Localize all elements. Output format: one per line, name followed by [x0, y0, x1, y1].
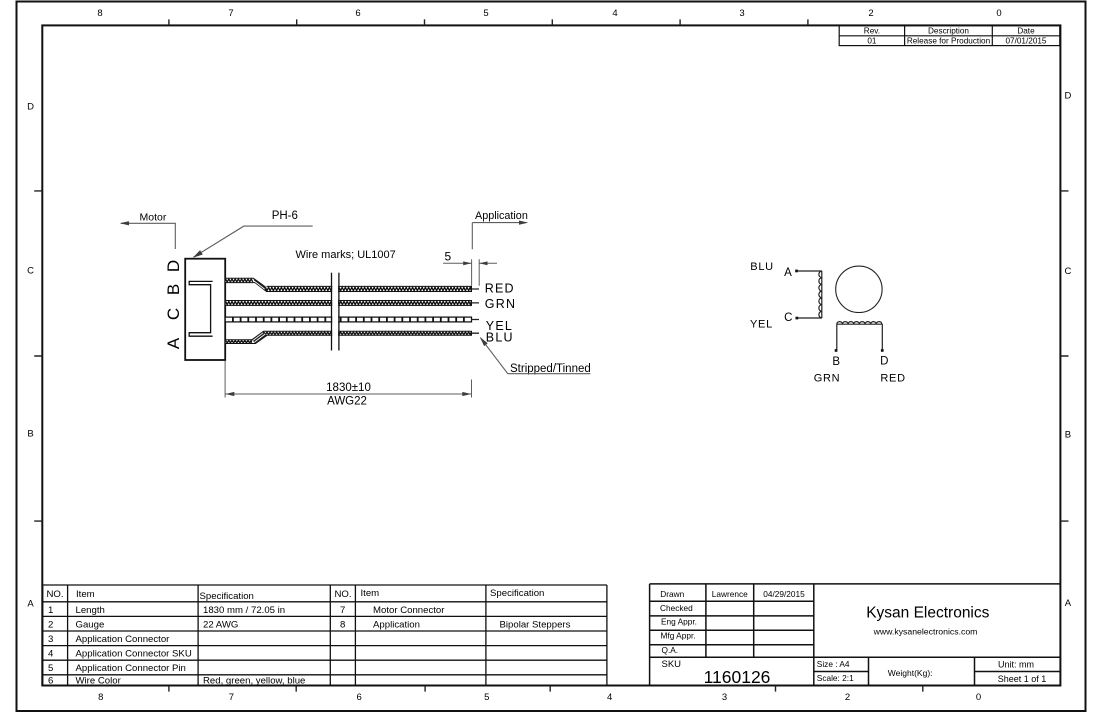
stripped wire ends	[472, 289, 480, 333]
svg-text:A: A	[784, 267, 792, 279]
svg-text:NO.: NO.	[335, 589, 352, 600]
svg-text:Q.A.: Q.A.	[662, 645, 679, 655]
svg-text:8: 8	[340, 619, 345, 630]
svg-text:22 AWG: 22 AWG	[203, 619, 238, 630]
svg-text:PH-6: PH-6	[272, 210, 298, 222]
svg-text:Application Connector Pin: Application Connector Pin	[76, 663, 186, 674]
wire YEL insulation	[225, 317, 471, 322]
svg-text:BLU: BLU	[750, 261, 774, 273]
svg-text:Specification: Specification	[490, 588, 544, 599]
svg-text:Motor: Motor	[140, 212, 167, 224]
svg-text:YEL: YEL	[750, 319, 773, 331]
label Motor with leader arrow	[120, 212, 176, 249]
svg-text:C: C	[164, 308, 183, 320]
connector housing PH-6	[185, 259, 225, 360]
svg-text:Gauge: Gauge	[76, 619, 105, 630]
svg-text:Wire marks; UL1007: Wire marks; UL1007	[296, 249, 396, 261]
wire GRN insulation	[225, 301, 471, 306]
svg-text:1: 1	[48, 605, 53, 616]
svg-text:7: 7	[229, 692, 234, 703]
dimension 1830±10 AWG22	[225, 361, 471, 408]
motor body circle	[836, 266, 882, 312]
svg-text:Checked: Checked	[660, 603, 693, 613]
svg-text:Size : A4: Size : A4	[817, 659, 850, 669]
wire C to coil	[797, 317, 822, 319]
svg-text:Motor Connector: Motor Connector	[373, 605, 445, 616]
svg-text:D: D	[164, 260, 183, 272]
title block	[650, 584, 1061, 686]
svg-text:Application: Application	[373, 619, 420, 630]
svg-text:Release for Production: Release for Production	[907, 37, 991, 46]
wire GRN hatch	[226, 301, 472, 304]
svg-text:D: D	[880, 356, 888, 368]
winding A-C (vertical coil)	[819, 271, 822, 318]
svg-text:Item: Item	[76, 589, 95, 600]
svg-text:B: B	[27, 428, 33, 439]
svg-text:Application Connector: Application Connector	[76, 634, 171, 645]
svg-text:8: 8	[97, 8, 102, 19]
svg-text:1830 mm / 72.05 in: 1830 mm / 72.05 in	[203, 605, 285, 616]
break line right	[338, 273, 340, 351]
svg-text:Length: Length	[76, 605, 105, 616]
parts list table	[43, 585, 607, 686]
svg-text:Kysan Electronics: Kysan Electronics	[866, 604, 989, 621]
svg-text:07/01/2015: 07/01/2015	[1006, 37, 1047, 46]
label Application with leader arrow	[472, 210, 528, 249]
label PH-6 with leader arrow to connector	[193, 210, 313, 258]
svg-text:A: A	[164, 337, 183, 349]
svg-text:D: D	[1064, 91, 1071, 102]
svg-text:Specification: Specification	[200, 591, 254, 602]
cable break gap	[332, 270, 338, 351]
svg-text:GRN: GRN	[814, 372, 841, 384]
svg-text:Red, green, yellow, blue: Red, green, yellow, blue	[203, 675, 305, 686]
dimension 5 (strip length)	[443, 249, 497, 286]
wire YEL hatch	[233, 317, 464, 322]
svg-text:www.kysanelectronics.com: www.kysanelectronics.com	[873, 626, 978, 636]
svg-text:AWG22: AWG22	[327, 395, 367, 407]
svg-text:7: 7	[340, 605, 345, 616]
svg-text:Rev.: Rev.	[864, 27, 880, 36]
svg-text:Weight(Kg):: Weight(Kg):	[888, 668, 933, 678]
svg-text:BLU: BLU	[486, 331, 514, 345]
svg-text:RED: RED	[485, 282, 515, 296]
wire A to coil	[797, 270, 822, 272]
svg-text:NO.: NO.	[47, 589, 64, 600]
svg-text:Lawrence: Lawrence	[712, 589, 748, 599]
svg-text:B: B	[832, 356, 840, 368]
svg-text:01: 01	[867, 37, 877, 46]
svg-text:3: 3	[48, 634, 53, 645]
svg-text:6: 6	[48, 675, 53, 686]
svg-text:1830±10: 1830±10	[326, 382, 371, 394]
svg-text:Date: Date	[1017, 27, 1035, 36]
revision table	[839, 26, 1060, 46]
svg-text:4: 4	[607, 692, 612, 703]
connector latch	[189, 281, 212, 336]
node B	[835, 349, 838, 352]
svg-text:04/29/2015: 04/29/2015	[763, 589, 805, 599]
svg-text:Description: Description	[928, 27, 969, 36]
svg-text:Sheet 1 of 1: Sheet 1 of 1	[998, 674, 1047, 684]
svg-text:Drawn: Drawn	[660, 589, 684, 599]
svg-text:2: 2	[845, 692, 850, 703]
wire RED insulation	[225, 278, 471, 291]
wire BLU insulation	[225, 331, 471, 343]
node C	[796, 317, 799, 320]
svg-text:Application: Application	[475, 210, 528, 222]
wire BLU hatch	[226, 332, 472, 343]
svg-text:Bipolar Steppers: Bipolar Steppers	[500, 619, 571, 630]
svg-text:B: B	[1065, 430, 1071, 441]
svg-text:Wire Color: Wire Color	[76, 675, 122, 686]
svg-text:4: 4	[48, 649, 54, 660]
break line left	[331, 273, 333, 351]
svg-text:Scale: 2:1: Scale: 2:1	[817, 673, 854, 683]
svg-text:2: 2	[48, 619, 53, 630]
svg-text:RED: RED	[880, 372, 905, 384]
svg-text:7: 7	[228, 8, 233, 19]
svg-text:5: 5	[444, 249, 451, 263]
svg-text:D: D	[27, 101, 34, 112]
svg-text:GRN: GRN	[485, 297, 516, 311]
svg-text:A: A	[1065, 598, 1072, 609]
svg-text:Unit: mm: Unit: mm	[998, 660, 1034, 670]
svg-text:8: 8	[98, 692, 103, 703]
svg-text:Eng Appr.: Eng Appr.	[661, 616, 697, 626]
svg-text:C: C	[1064, 266, 1071, 277]
wire RED hatch	[226, 279, 472, 291]
svg-text:Application Connector SKU: Application Connector SKU	[76, 649, 192, 660]
svg-text:C: C	[27, 265, 34, 276]
svg-text:6: 6	[355, 8, 360, 19]
node A	[795, 270, 798, 273]
label Stripped/Tinned with leader arrow	[480, 337, 591, 375]
svg-text:2: 2	[868, 8, 873, 19]
svg-text:5: 5	[48, 663, 53, 674]
node D	[881, 349, 884, 352]
svg-text:Mfg Appr.: Mfg Appr.	[661, 630, 696, 640]
svg-text:SKU: SKU	[662, 659, 682, 670]
svg-text:5: 5	[484, 692, 489, 703]
svg-text:3: 3	[722, 692, 727, 703]
svg-text:C: C	[784, 312, 792, 324]
svg-text:Item: Item	[361, 588, 380, 599]
svg-text:5: 5	[483, 8, 488, 19]
svg-text:6: 6	[356, 692, 361, 703]
winding B-D (horizontal coil)	[837, 322, 883, 350]
svg-text:B: B	[164, 284, 183, 295]
svg-text:4: 4	[612, 8, 617, 19]
svg-text:0: 0	[976, 692, 981, 703]
svg-text:A: A	[27, 598, 34, 609]
svg-text:0: 0	[996, 8, 1001, 19]
svg-text:1160126: 1160126	[704, 667, 771, 687]
svg-text:3: 3	[739, 8, 744, 19]
